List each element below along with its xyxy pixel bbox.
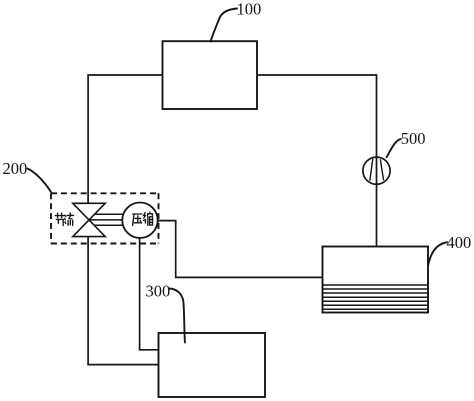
svg-text:300: 300 <box>146 282 171 301</box>
svg-text:100: 100 <box>237 0 262 19</box>
svg-text:400: 400 <box>447 233 472 252</box>
svg-text:200: 200 <box>3 159 28 178</box>
svg-text:500: 500 <box>401 129 426 148</box>
